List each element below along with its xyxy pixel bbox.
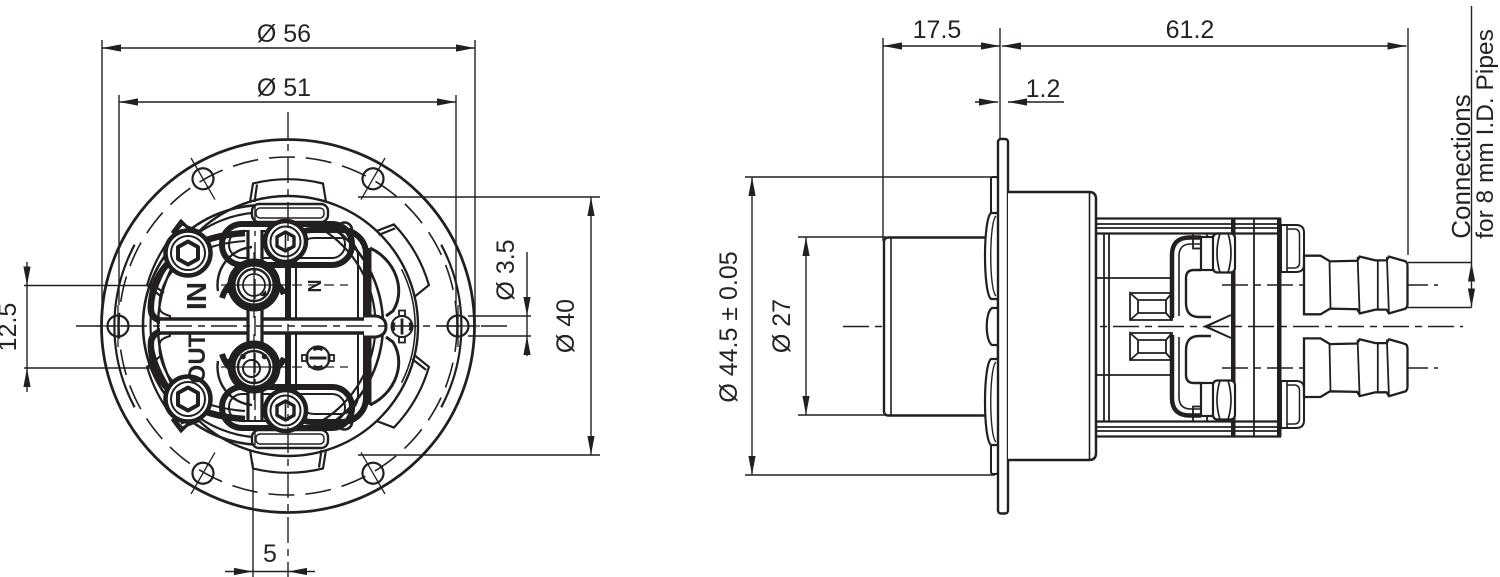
svg-text:N: N <box>305 280 325 293</box>
svg-text:Ø 27: Ø 27 <box>768 299 796 353</box>
svg-text:OUT: OUT <box>184 332 211 383</box>
svg-text:Ø 40: Ø 40 <box>552 299 580 353</box>
svg-text:17.5: 17.5 <box>913 16 962 44</box>
svg-text:12.5: 12.5 <box>0 303 22 352</box>
svg-text:5: 5 <box>263 540 277 568</box>
svg-text:for 8 mm I.D. Pipes: for 8 mm I.D. Pipes <box>1472 29 1499 239</box>
svg-text:61.2: 61.2 <box>1166 16 1215 44</box>
svg-text:Ø 56: Ø 56 <box>257 20 311 48</box>
svg-text:1.2: 1.2 <box>1026 75 1061 103</box>
svg-text:Ø 51: Ø 51 <box>257 74 311 102</box>
svg-text:IN: IN <box>181 282 212 310</box>
svg-text:Ø 44.5 ± 0.05: Ø 44.5 ± 0.05 <box>715 251 743 402</box>
svg-text:Ø 3.5: Ø 3.5 <box>492 239 520 300</box>
